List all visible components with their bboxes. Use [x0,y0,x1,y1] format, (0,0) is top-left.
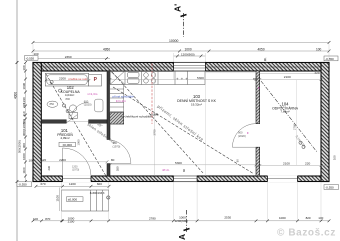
window bottom [173,175,197,182]
svg-text:850: 850 [50,102,55,106]
svg-text:2360: 2360 [65,55,72,59]
svg-text:890: 890 [66,97,71,101]
svg-text:1200: 1200 [69,182,76,186]
svg-text:1090: 1090 [22,82,26,89]
section mark A bottom [177,210,190,240]
bath door dims [50,97,92,106]
outer wall bottom [33,176,329,182]
roof slope dashed line B1 [112,72,203,173]
hall dims [29,158,187,172]
svg-text:-0,550: -0,550 [325,185,334,189]
ladder stair hatched [110,113,124,125]
bathroom sink [47,101,58,107]
svg-text:220: 220 [315,71,320,75]
level box hall [59,142,76,147]
entrance door swing [63,148,92,176]
dim line 5300 top [110,79,256,81]
entrance door dim stacked [72,166,79,172]
svg-text:(1970): (1970) [72,169,79,172]
svg-text:© Bazoš.cz: © Bazoš.cz [277,228,336,239]
svg-text:-0,550: -0,550 [325,57,334,61]
svg-text:3x300/163,3: 3x300/163,3 [90,191,105,195]
roof slope dashed line B2 [113,87,254,174]
svg-text:820: 820 [306,216,311,220]
svg-text:š=1,2m: š=1,2m [116,99,126,103]
slope line C room 104 [261,81,317,152]
svg-text:2780: 2780 [293,124,297,130]
svg-text:80: 80 [236,159,240,162]
svg-text:1200(900): 1200(900) [181,52,195,56]
level box top-left [25,56,39,61]
dim 5300 top 103 [175,76,257,165]
room label 104 [272,102,299,114]
svg-text:1200(900): 1200(900) [175,219,189,223]
svg-text:100: 100 [316,47,322,51]
ladder stair label [120,115,152,119]
svg-text:900: 900 [238,131,243,135]
partition 103/104 upper [256,71,260,124]
svg-text:(1970): (1970) [113,145,121,149]
svg-text:Ø t.b.: Ø t.b. [163,168,171,172]
svg-text:2530: 2530 [224,216,231,220]
svg-text:900(1300): 900(1300) [22,122,26,136]
svg-text:4950: 4950 [103,47,110,51]
bottom dim row 1 [32,216,331,224]
svg-text:230: 230 [47,166,51,171]
svg-text:900: 900 [113,141,118,145]
hall dim line [41,161,107,163]
red axis dashed kitchen [151,64,153,125]
svg-text:670: 670 [41,182,46,186]
svg-text:±0,000: ±0,000 [68,198,78,202]
svg-text:7,69m²: 7,69m² [280,109,289,113]
svg-text:4050: 4050 [258,47,265,51]
left overall dim 4000 [13,61,18,183]
svg-text:(2020): (2020) [84,103,92,107]
top dim row 3 left [32,52,110,60]
svg-text:+++: +++ [176,77,190,82]
top window dim [174,52,206,57]
svg-text:3700: 3700 [153,129,157,135]
svg-text:1100: 1100 [22,167,26,173]
svg-text:2200: 2200 [59,158,66,162]
svg-text:1000: 1000 [22,153,26,160]
svg-text:500(1500): 500(1500) [18,140,22,153]
svg-text:2780: 2780 [149,216,156,220]
svg-text:4,04m²: 4,04m² [65,93,74,97]
level box top-right [324,56,338,61]
svg-text:2100: 2100 [284,75,291,79]
svg-text:410: 410 [22,111,26,116]
steps label [90,191,110,200]
porch slab [62,190,109,211]
zone line kitchen [154,71,156,176]
svg-text:5300: 5300 [175,161,182,165]
svg-text:1100: 1100 [55,195,59,202]
svg-text:(2020): (2020) [238,134,246,138]
svg-text:870: 870 [45,217,50,221]
svg-text:žebříkové schodiště: žebříkové schodiště [125,115,152,119]
svg-text:1120: 1120 [40,158,47,162]
svg-text:2100: 2100 [283,161,290,165]
door dims 103-104 [236,131,246,163]
svg-text:4000: 4000 [13,92,17,99]
room label 101 [57,128,73,140]
svg-text:1060: 1060 [76,139,80,145]
wall 101/102 left segment [41,120,66,123]
washing machine [89,74,102,86]
top dim row 2 [32,47,331,52]
level box bottom-right [324,185,339,190]
scan border line left [16,0,18,241]
svg-text:v=1,3m: v=1,3m [87,92,97,96]
dim line 104 top [260,74,329,166]
svg-text:2100: 2100 [68,220,75,224]
outer wall left [33,63,41,182]
svg-text:100: 100 [333,155,337,160]
window top (1200/900) [174,62,206,72]
svg-text:4,09m²: 4,09m² [60,136,69,140]
right dim chain [333,155,337,160]
svg-text:80: 80 [182,169,186,172]
svg-text:1000: 1000 [279,216,286,220]
level box bottom-left [17,182,32,187]
basin on partition [95,99,104,112]
bathroom door swing [67,102,89,123]
room label 102 [61,85,81,97]
partition 103/104 lower [256,147,260,176]
svg-text:230: 230 [22,103,26,108]
outer wall right [321,63,329,182]
103 bottom dim line [110,164,256,166]
room label 103 [177,94,216,106]
wall 101/102 right segment [89,120,107,123]
svg-text:A: A [177,234,187,240]
svg-text:100: 100 [22,65,26,70]
porch dim row [35,182,111,188]
svg-text:10000: 10000 [169,39,179,43]
dim 2100 104 top [283,71,320,165]
level box porch [67,197,84,202]
door dims 101-103 [113,141,121,149]
left dim chain [18,61,27,183]
svg-text:220: 220 [305,161,310,165]
extension lines [33,44,329,220]
svg-text:1390: 1390 [22,97,26,104]
svg-text:600: 600 [97,182,102,186]
outer wall top [33,63,329,72]
straight stair treads [110,85,124,125]
svg-text:±0,000: ±0,000 [62,143,72,147]
stove burners [144,73,156,83]
partition 101/103 lower [107,164,110,177]
threshold line bath door [66,121,88,123]
kitchen sink [128,72,140,83]
top overall dim 10000 [32,39,331,44]
bathtub [45,73,88,86]
svg-text:2200: 2200 [59,76,66,80]
door 104 opening bottom [268,175,298,182]
porch height dim [55,188,59,212]
svg-text:100: 100 [29,158,34,162]
svg-text:1000: 1000 [185,47,192,51]
svg-text:100: 100 [33,217,38,221]
entrance door opening bottom [63,175,92,182]
toilet [69,105,77,119]
section mark A' top [173,4,187,37]
svg-text:550: 550 [116,166,120,171]
door 101-103 swing [107,140,131,164]
svg-text:900: 900 [22,143,26,148]
door 103-104 swing [232,124,256,148]
svg-text:A': A' [173,4,183,12]
svg-text:80: 80 [111,158,115,162]
kitchen counter [110,71,205,85]
svg-text:-0,550: -0,550 [18,183,27,187]
svg-text:19,32m²: 19,32m² [191,102,202,106]
partition 101/103 upper [107,71,110,140]
roof slope dashed line A [46,74,106,176]
